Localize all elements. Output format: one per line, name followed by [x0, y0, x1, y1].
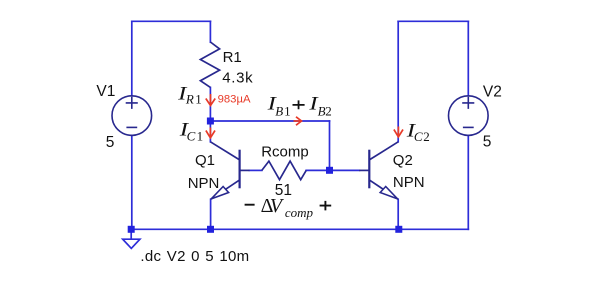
svg-text:2: 2: [423, 129, 430, 144]
svg-text:R: R: [185, 92, 194, 107]
wire bottom rail: [131, 228, 468, 230]
ground: [123, 233, 140, 249]
svg-text:2: 2: [325, 104, 332, 119]
voltage source V1: [112, 96, 152, 136]
wire Q1 base to Rcomp: [249, 169, 261, 171]
wire Q2 emitter down: [397, 199, 399, 229]
node Q1 emitter junction: [207, 226, 214, 233]
transistor Q1: [210, 142, 249, 200]
label I_C2: [406, 119, 430, 144]
transistor Q2: [359, 142, 398, 200]
wire Q1 collector stub: [209, 121, 211, 142]
current arrow IR1 (983uA): [206, 94, 215, 106]
wire vertical to base node: [329, 121, 331, 170]
svg-text:1: 1: [195, 92, 202, 107]
svg-text:comp: comp: [285, 205, 314, 220]
wire R1 bottom lead: [209, 87, 211, 118]
node B (Rcomp right junction): [326, 167, 333, 174]
label IB1 + IB2: [266, 92, 331, 118]
svg-text:NPN: NPN: [393, 174, 425, 191]
wire right vertical upper: [467, 21, 469, 96]
svg-text:B: B: [275, 103, 283, 118]
label I_R1: [177, 82, 202, 106]
svg-text:Q1: Q1: [195, 152, 215, 169]
wire left vertical lower: [131, 135, 133, 229]
svg-text:NPN: NPN: [188, 175, 220, 192]
svg-text:4.3k: 4.3k: [222, 70, 253, 87]
svg-text:V2: V2: [483, 83, 502, 100]
svg-text:5: 5: [483, 134, 492, 151]
current arrow IC2: [394, 127, 403, 137]
resistor Rcomp: [262, 161, 306, 180]
svg-text:C: C: [414, 129, 423, 144]
svg-text:Rcomp: Rcomp: [261, 144, 309, 161]
svg-text:1: 1: [284, 103, 291, 118]
node ground junction: [128, 226, 135, 233]
wire Q1 emitter down: [210, 199, 212, 229]
wire R1 top lead: [209, 21, 211, 42]
svg-text:1: 1: [197, 128, 204, 143]
svg-text:5: 5: [106, 134, 115, 151]
svg-text:V1: V1: [96, 83, 115, 100]
svg-text:.dc V2 0 5 10m: .dc V2 0 5 10m: [140, 248, 249, 265]
svg-text:C: C: [187, 128, 196, 143]
node A (R1 bottom junction): [207, 118, 214, 125]
current arrow IC1: [206, 128, 215, 138]
wire IB horizontal: [210, 120, 329, 122]
wire top-right horizontal: [398, 20, 468, 22]
svg-text:R1: R1: [223, 49, 242, 66]
wire Q2 collector vertical: [397, 21, 399, 142]
svg-text:983µA: 983µA: [218, 93, 251, 105]
label delta V comp: [245, 195, 332, 220]
wire Rcomp to Q2 base: [306, 169, 359, 171]
wire left vertical upper: [131, 21, 133, 96]
voltage source V2: [449, 96, 489, 136]
svg-text:Q2: Q2: [393, 152, 413, 169]
resistor R1: [200, 42, 219, 87]
wire right vertical lower: [467, 135, 469, 229]
current arrow IB (rightward): [294, 117, 302, 125]
wire top-left horizontal: [132, 20, 211, 22]
node Q2 emitter junction: [395, 226, 402, 233]
label I_C1: [179, 118, 204, 143]
